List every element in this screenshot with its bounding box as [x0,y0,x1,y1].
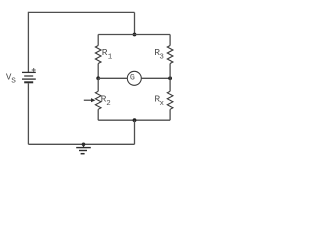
svg-text:x: x [160,100,165,108]
wire right rail upper [169,35,171,46]
battery V_S [22,72,36,82]
wire bridge bottom [98,119,170,121]
svg-text:S: S [11,78,16,86]
wire right rail bottom [169,109,171,120]
wire middle right [141,77,170,79]
ground [76,143,91,154]
node left bridge junction [96,76,100,80]
resistor R2 variable [95,91,101,109]
node bottom center junction [133,118,137,122]
node top center junction [133,33,137,37]
wire right feed vertical top [134,12,136,34]
wire left rail bottom [97,109,99,120]
wire left vertical battery top lead [27,12,29,73]
wire middle left [98,77,127,79]
galvanometer G [127,71,141,85]
wire bottom horizontal [28,143,134,145]
battery plus sign [32,68,36,72]
arrow wiper of R2 [84,98,96,102]
wire right rail mid [169,64,171,79]
wire top horizontal [28,11,134,13]
wire center feed down [134,120,136,144]
resistor R3 [167,46,173,64]
wire right rail lower [169,78,171,91]
wire left rail upper [97,35,99,46]
svg-text:3: 3 [159,54,164,62]
wire bridge top [98,34,170,36]
node right bridge junction [168,76,172,80]
resistor R1 [95,46,101,64]
wire battery bottom lead [27,83,29,144]
svg-text:2: 2 [106,100,111,108]
svg-text:1: 1 [108,54,113,62]
wire left rail mid [97,64,99,79]
wire left rail lower [97,78,99,91]
resistor Rx [167,91,173,109]
svg-text:G: G [130,74,135,83]
